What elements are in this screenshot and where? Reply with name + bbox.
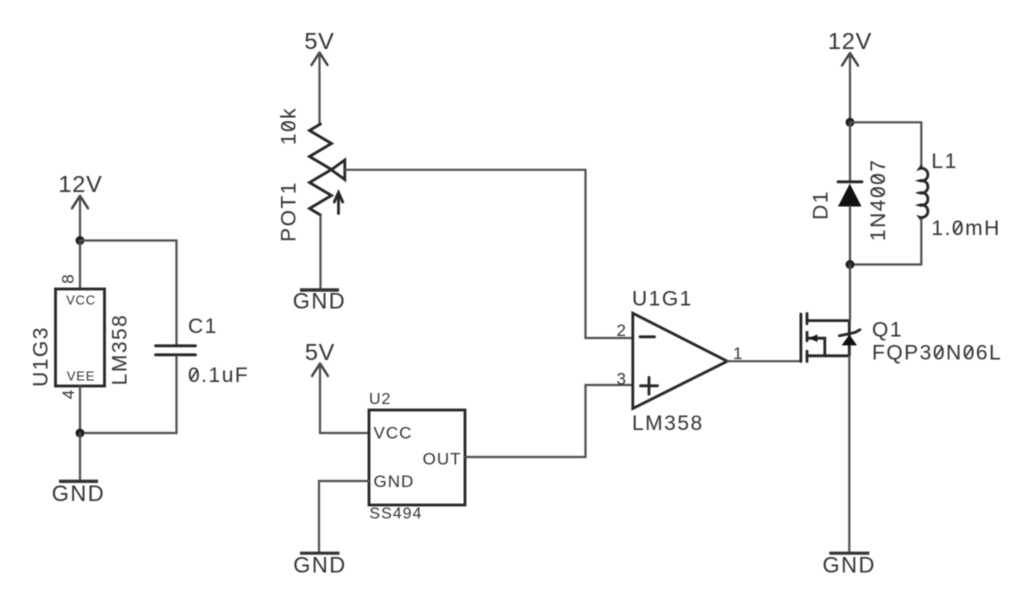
body line [848, 321, 851, 356]
reference U1G3 [29, 326, 52, 387]
body diode [842, 335, 857, 346]
svg-text:12V: 12V [58, 171, 102, 197]
wire node to C1 top [80, 241, 177, 345]
diode D1 [838, 182, 862, 207]
value FQP30N06L [872, 342, 1002, 365]
wire L1 bottom to node [850, 219, 921, 264]
value 10k [277, 107, 300, 145]
wire C1 bottom to node [80, 357, 177, 434]
op-amp power unit U1G3 [56, 289, 105, 386]
svg-text:GND: GND [52, 481, 105, 506]
wire op-amp out to Q1 gate [727, 360, 801, 362]
svg-text:LM358: LM358 [632, 412, 704, 435]
wire wiper to op-amp pin 2 [345, 170, 633, 338]
wire D1 anode to node [849, 207, 851, 265]
svg-text:SS494: SS494 [369, 506, 422, 523]
svg-text:GND: GND [293, 289, 346, 314]
wire U2 GND to ground [319, 481, 369, 552]
wire node to L1 top [850, 122, 921, 166]
wire 12V to node [79, 196, 81, 241]
adjuster arrow [337, 193, 340, 214]
inductor L1 [920, 167, 928, 220]
op-amp U1G1 [633, 313, 728, 408]
power symbol 12V (right) [828, 28, 872, 66]
power symbol 5V (U2) [305, 339, 335, 376]
svg-text:U1G3: U1G3 [29, 326, 52, 387]
wire node to ground [79, 433, 81, 480]
svg-text:VCC: VCC [66, 293, 96, 308]
gate bar [800, 314, 803, 362]
power symbol 5V (POT1) [304, 28, 334, 65]
ground GND (U2) [293, 553, 346, 578]
wire node to Q1 drain [849, 265, 851, 321]
svg-text:LM358: LM358 [108, 314, 131, 386]
wire node to D1 cathode [849, 122, 851, 181]
wire pin 4 [79, 386, 81, 433]
ground GND (right) [823, 553, 876, 578]
source arrow [809, 338, 825, 356]
transistor Q1 [801, 314, 860, 362]
wire 5V to POT1 [318, 53, 320, 124]
source bar [807, 354, 849, 357]
drain bar [807, 319, 849, 322]
svg-text:VEE: VEE [67, 369, 95, 384]
svg-text:VCC: VCC [374, 424, 413, 443]
ground GND (POT1) [293, 289, 346, 314]
svg-text:GND: GND [823, 553, 876, 578]
reference D1 [809, 190, 832, 220]
capacitor C1 [156, 346, 196, 355]
power symbol 12V (left) [58, 171, 102, 208]
plus input mark [641, 377, 658, 394]
svg-text:Q1: Q1 [872, 318, 903, 341]
value 0.1uF [188, 364, 249, 387]
svg-text:2: 2 [617, 321, 627, 340]
svg-text:12V: 12V [828, 28, 872, 54]
svg-text:GND: GND [293, 553, 346, 578]
node junction left bottom [76, 429, 85, 438]
svg-text:1: 1 [733, 344, 743, 363]
svg-text:4: 4 [59, 389, 78, 399]
svg-text:GND: GND [374, 472, 415, 491]
svg-text:OUT: OUT [423, 450, 462, 469]
svg-text:U2: U2 [369, 391, 391, 408]
svg-text:8: 8 [59, 273, 78, 283]
svg-text:D1: D1 [809, 190, 832, 220]
wire U2 OUT to op-amp pin 3 [465, 385, 633, 457]
svg-text:U1G1: U1G1 [632, 287, 693, 310]
svg-text:L1: L1 [931, 150, 957, 173]
hall sensor U2 [369, 410, 465, 505]
wire Q1 source to ground [848, 356, 850, 552]
value 1N4007 [867, 159, 890, 242]
svg-text:FQP30N06L: FQP30N06L [872, 342, 1002, 365]
svg-text:0.1uF: 0.1uF [188, 364, 249, 387]
channel segments [806, 314, 809, 362]
value LM358 (U1G3) [108, 314, 131, 386]
svg-text:1N4007: 1N4007 [867, 159, 890, 242]
value 1.0mH [931, 217, 1000, 240]
svg-text:C1: C1 [188, 315, 218, 338]
minus input mark [640, 335, 655, 338]
wire 5V to U2 VCC [320, 364, 369, 433]
wire pin 8 [79, 241, 81, 290]
wiper arrow [331, 160, 345, 180]
pin number 4 [59, 389, 78, 399]
wire 12V to node [849, 54, 851, 123]
pin number 8 [59, 273, 78, 283]
svg-text:POT1: POT1 [277, 181, 300, 242]
node junction left top [76, 236, 85, 245]
wire POT1 to ground [319, 215, 321, 288]
potentiometer POT1 [310, 124, 345, 215]
node junction right top [846, 118, 855, 127]
node junction right mid [846, 260, 855, 269]
svg-text:5V: 5V [305, 339, 335, 365]
reference POT1 [277, 181, 300, 242]
svg-text:5V: 5V [304, 28, 334, 54]
svg-text:3: 3 [617, 369, 627, 388]
ground GND (left) [52, 481, 105, 506]
svg-text:1.0mH: 1.0mH [931, 217, 1000, 240]
